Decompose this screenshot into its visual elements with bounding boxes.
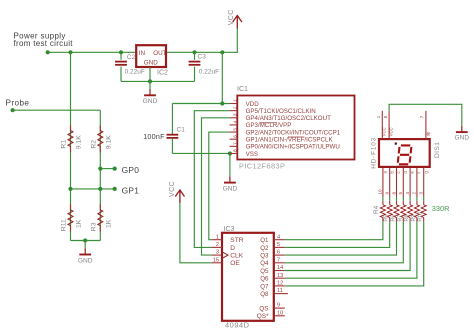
svg-text:dp: dp	[425, 131, 430, 136]
wire: GP2 (pin5) to IC3 STR	[209, 132, 230, 240]
resistor R1	[70, 125, 72, 130]
svg-text:4: 4	[277, 234, 280, 240]
node: junction at C3	[192, 50, 196, 54]
svg-text:GND: GND	[223, 185, 238, 192]
IC3 pin 7 stub (Q4)	[274, 262, 285, 264]
IC3 pin 15 stub (OE)	[212, 262, 222, 264]
svg-text:Q4: Q4	[260, 260, 269, 267]
svg-text:R3: R3	[90, 222, 97, 231]
svg-text:C1: C1	[177, 126, 186, 133]
wire: divider bottom net	[71, 240, 101, 242]
svg-text:10: 10	[378, 189, 383, 195]
IC3 pin 14 stub (Q5)	[274, 270, 285, 272]
display pin 2 lead (segment f)	[416, 167, 418, 197]
node: supply wire end dot	[46, 50, 50, 54]
wire: GP4 (pin3) to IC3 CLK	[202, 118, 230, 255]
wire: VSS net C1 to IC1 pin 8	[172, 152, 229, 154]
IC3 pin 13 stub (Q6)	[274, 277, 285, 279]
svg-text:15: 15	[213, 257, 219, 263]
svg-text:9: 9	[277, 303, 280, 309]
display pin 1 stub (VCC)	[381, 111, 383, 139]
wire: display to R6	[396, 197, 398, 201]
node: probe end dot	[11, 108, 15, 112]
svg-text:9.1K: 9.1K	[76, 135, 83, 149]
wire: R7 down to Q4 row	[402, 221, 404, 223]
resistor R5	[389, 201, 391, 205]
svg-text:HD-F103: HD-F103	[370, 137, 377, 169]
wire: GP0 stub	[100, 168, 114, 170]
IC3 pin 1 stub (STR)	[212, 239, 222, 241]
svg-text:11: 11	[277, 288, 283, 294]
svg-text:VCC: VCC	[169, 181, 176, 197]
wire: VCC drop to IC1 VDD	[221, 52, 223, 103]
svg-text:GND: GND	[454, 135, 469, 142]
node: junction VSS/GND	[228, 151, 232, 155]
svg-text:7: 7	[420, 115, 425, 118]
wire: IC2 GND pin down to gnd net	[149, 67, 151, 81]
op IC1 PIC12F683P box	[237, 96, 354, 160]
svg-text:2: 2	[216, 242, 219, 248]
IC1 pin 5 stub	[230, 131, 238, 133]
svg-text:C2: C2	[127, 54, 136, 61]
svg-text:7: 7	[277, 257, 280, 263]
node: junction to ground	[83, 238, 87, 242]
svg-text:8: 8	[232, 149, 238, 152]
svg-text:5: 5	[398, 192, 403, 195]
IC3 pin 2 stub (D)	[212, 246, 222, 248]
svg-text:Q1: Q1	[260, 237, 269, 244]
svg-text:GP3/MCLR/VPP: GP3/MCLR/VPP	[246, 122, 292, 129]
node: GP1 junction on R1 column	[68, 187, 72, 191]
svg-text:R6: R6	[391, 215, 397, 222]
svg-text:5: 5	[277, 242, 280, 248]
resistor R2	[99, 125, 101, 130]
svg-text:10: 10	[277, 310, 283, 316]
svg-text:PIC12F683P: PIC12F683P	[239, 162, 285, 171]
wire: R2 column	[99, 110, 101, 240]
wire: Q6 to segment resistor column 6	[285, 222, 417, 279]
wire: display to R7	[402, 197, 404, 201]
wire: display to R10	[423, 197, 425, 201]
IC1 pin 6 stub	[230, 138, 238, 140]
svg-text:100nF: 100nF	[143, 132, 165, 141]
svg-text:OUT: OUT	[153, 50, 166, 57]
svg-text:GND: GND	[78, 257, 93, 264]
svg-text:R5: R5	[384, 215, 390, 222]
resistor R3	[99, 204, 101, 210]
wire: Q2 to segment resistor column 2	[285, 222, 390, 248]
svg-text:2: 2	[232, 106, 238, 109]
svg-text:9.1K: 9.1K	[105, 135, 112, 149]
wire: R10 down to Q7 row	[423, 221, 425, 223]
wire: GP1 net	[71, 188, 115, 190]
svg-text:Q3: Q3	[260, 253, 269, 260]
wire: VCC2 to IC3 OE	[180, 203, 212, 263]
IC3 pin 11 stub (Q8)	[274, 293, 288, 295]
svg-text:14: 14	[277, 265, 283, 271]
resistor R10	[423, 201, 425, 205]
svg-text:GP2/AN2/T0CKI/INT/COUT/CCP1: GP2/AN2/T0CKI/INT/COUT/CCP1	[246, 129, 341, 136]
svg-text:R7: R7	[397, 215, 403, 222]
svg-text:R11: R11	[61, 219, 68, 231]
svg-text:from test circuit: from test circuit	[14, 39, 74, 48]
wire: R5 down to Q2 row	[389, 221, 391, 223]
svg-text:GP1/AN1/CIN-/VREF/ICSPCLK: GP1/AN1/CIN-/VREF/ICSPCLK	[246, 137, 334, 144]
svg-text:1K: 1K	[105, 219, 112, 228]
svg-text:4: 4	[232, 120, 238, 123]
display pin 7 stub (dp)	[425, 111, 427, 139]
wire: probe net	[13, 109, 101, 111]
wire: R1 column	[70, 52, 72, 240]
wire: drop to GND symbol	[84, 241, 86, 249]
node: junction VDD	[220, 101, 224, 105]
svg-text:Probe: Probe	[6, 98, 30, 107]
IC1 pin 4 stub	[230, 124, 238, 126]
wire: display to R4	[382, 197, 384, 201]
node: C2 top junction	[119, 50, 123, 54]
svg-text:6: 6	[277, 250, 280, 256]
wire: display to R9	[416, 197, 418, 201]
resistor R7	[402, 201, 404, 205]
node: GP1 end dot	[113, 187, 117, 191]
wire: display to R8	[409, 197, 411, 201]
svg-text:330R: 330R	[432, 204, 450, 213]
svg-text:GND: GND	[144, 60, 158, 67]
display pin 10 lead (segment a)	[382, 167, 384, 197]
svg-text:13: 13	[277, 273, 283, 279]
svg-text:GND: GND	[143, 98, 158, 105]
node: junction at IC2 GND	[148, 79, 152, 83]
svg-text:3: 3	[419, 192, 424, 195]
wire: drop to GND under IC1	[229, 153, 231, 176]
wire: main supply net (top)	[48, 51, 137, 53]
power VCC arrow (top)	[233, 16, 242, 23]
display decimal point	[395, 143, 397, 145]
IC3 pin 5 stub (Q2)	[274, 246, 285, 248]
svg-text:R8: R8	[404, 215, 410, 222]
VREF overline	[288, 136, 304, 138]
svg-text:1: 1	[376, 115, 381, 118]
svg-text:1: 1	[232, 99, 238, 102]
svg-text:GP0: GP0	[122, 165, 140, 175]
svg-text:c: c	[396, 171, 401, 173]
svg-text:IC2: IC2	[157, 70, 168, 77]
svg-text:1K: 1K	[76, 219, 83, 228]
svg-text:VSS: VSS	[246, 151, 258, 158]
svg-text:7: 7	[232, 142, 238, 145]
resistor R4	[382, 201, 384, 205]
svg-text:2: 2	[412, 192, 417, 195]
svg-text:VCC: VCC	[389, 127, 394, 136]
resistor R6	[396, 201, 398, 205]
ground symbol right of display	[461, 126, 463, 132]
wire: GP5 (pin2) to IC3 D	[194, 111, 229, 248]
display pin 5 lead (segment d)	[402, 167, 404, 197]
node: junction at VCC/IC1 drop	[220, 50, 224, 54]
display digit 8	[398, 145, 412, 164]
svg-text:8: 8	[391, 192, 396, 195]
IC3 clock wedge	[223, 252, 228, 258]
svg-text:1: 1	[216, 234, 219, 240]
IC3 pin 4 stub (Q1)	[274, 239, 285, 241]
wire: R6 down to Q3 row	[396, 221, 398, 223]
ground symbol under IC2	[149, 89, 151, 95]
svg-text:5: 5	[232, 128, 238, 131]
resistor R11	[70, 204, 72, 210]
resistor R9	[416, 201, 418, 205]
IC3 pin 3 stub (CLK)	[212, 254, 222, 256]
wire: Q3 to segment resistor column 3	[285, 222, 397, 256]
wire: R8 down to Q5 row	[409, 221, 411, 223]
node: GP0 junction on R2 column	[98, 167, 102, 171]
node: GP1 junction on R2 column	[98, 187, 102, 191]
IC1 pin 7 stub	[230, 145, 238, 147]
display pin 9 lead (segment b)	[389, 167, 391, 197]
shift register IC3 4094D box	[222, 233, 274, 321]
svg-text:GP5/T1CKI/OSC1/CLKIN: GP5/T1CKI/OSC1/CLKIN	[246, 108, 316, 115]
svg-text:6: 6	[383, 115, 388, 118]
wire: R4 down to Q1 row	[382, 221, 384, 223]
svg-text:VDD: VDD	[246, 101, 260, 108]
wire: VDD net C1 to IC1 pin 1	[172, 103, 229, 105]
display pin 8 lead (segment c)	[396, 167, 398, 197]
svg-text:0.22uF: 0.22uF	[125, 68, 145, 75]
power VCC arrow (middle)	[175, 190, 184, 197]
IC1 pin 8 stub	[230, 152, 238, 154]
svg-text:R1: R1	[61, 140, 68, 149]
MCLR overline	[260, 122, 278, 124]
wire: drop to GND symbol	[149, 81, 151, 89]
node: junction at R1 column	[68, 50, 72, 54]
svg-text:STR: STR	[230, 237, 243, 244]
svg-text:Q2: Q2	[260, 245, 269, 252]
display pin 6 stub (VCC)	[388, 111, 390, 139]
voltage regulator IC2 box	[136, 45, 166, 67]
node: GP0 end dot	[113, 167, 117, 171]
wire: display common to GND (right)	[389, 104, 462, 126]
7-segment display DIS1 box	[379, 139, 430, 167]
svg-text:VCC: VCC	[228, 9, 235, 25]
svg-text:R10: R10	[418, 212, 424, 222]
svg-text:Q7: Q7	[260, 283, 269, 290]
ground symbol under IC1	[229, 176, 231, 182]
svg-text:3: 3	[232, 113, 238, 116]
svg-text:4: 4	[405, 192, 410, 195]
display pin 3 lead (segment g)	[423, 167, 425, 197]
wire: Q1 to segment resistor column 1	[285, 222, 383, 240]
svg-text:R9: R9	[411, 215, 417, 222]
IC3 pin 6 stub (Q3)	[274, 254, 285, 256]
svg-text:GP1: GP1	[122, 186, 140, 196]
wire: R9 down to Q6 row	[416, 221, 418, 223]
svg-text:Q6: Q6	[260, 276, 269, 283]
wire: Q4 to segment resistor column 4	[285, 222, 404, 263]
svg-text:Q8: Q8	[260, 291, 269, 298]
svg-text:R4: R4	[373, 205, 380, 214]
IC3 pin 9 stub (QS)	[274, 307, 285, 309]
svg-text:GP4/AN3/T1G/OSC2/CLKOUT: GP4/AN3/T1G/OSC2/CLKOUT	[246, 115, 331, 122]
wire: display to R5	[389, 197, 391, 201]
svg-text:3: 3	[216, 250, 219, 256]
resistor R8	[409, 201, 411, 205]
IC1 pin 1 stub	[230, 103, 238, 105]
IC3 pin 12 stub (Q7)	[274, 285, 285, 287]
svg-text:D: D	[230, 245, 235, 252]
svg-text:4094D: 4094D	[225, 321, 250, 330]
svg-text:OE: OE	[230, 260, 240, 267]
IC3 pin 10 stub (QS*)	[274, 315, 285, 317]
display pin 4 lead (segment e)	[409, 167, 411, 197]
capacitor C1	[171, 104, 173, 135]
wire: Q7 to segment resistor column 7	[285, 222, 424, 286]
wire: gnd net joining C2, IC2, C3	[121, 80, 195, 82]
wire: regulator OUT to VCC corner	[166, 28, 237, 52]
svg-text:0.22uF: 0.22uF	[199, 68, 219, 75]
svg-text:6: 6	[232, 135, 238, 138]
svg-text:GP0/AN0/CIN+/ICSPDAT/ULPWU: GP0/AN0/CIN+/ICSPDAT/ULPWU	[246, 144, 340, 151]
svg-text:VCC: VCC	[382, 127, 387, 136]
svg-text:9: 9	[385, 192, 390, 195]
capacitor C2	[120, 52, 122, 60]
svg-text:12: 12	[277, 281, 283, 287]
svg-text:IN: IN	[139, 50, 146, 57]
IC1 pin 3 stub	[230, 117, 238, 119]
svg-text:Q5: Q5	[260, 268, 269, 275]
capacitor C3	[194, 52, 196, 60]
svg-text:C3: C3	[198, 54, 207, 61]
svg-text:CLK: CLK	[230, 253, 243, 260]
svg-text:IC1: IC1	[237, 86, 248, 93]
svg-text:QS: QS	[259, 305, 268, 312]
ground symbol under divider	[84, 248, 86, 254]
wire: Q5 to segment resistor column 5	[285, 222, 410, 271]
svg-text:DIS1: DIS1	[434, 142, 441, 158]
svg-text:QS*: QS*	[257, 313, 269, 320]
svg-text:R2: R2	[90, 140, 97, 149]
IC1 pin 2 stub	[230, 110, 238, 112]
